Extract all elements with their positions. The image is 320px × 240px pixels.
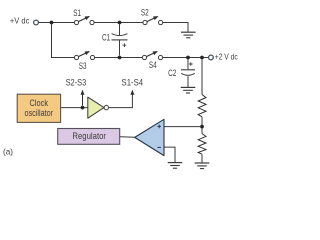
- node C1 top junction: [118, 21, 122, 25]
- node divider top junction: [200, 56, 204, 60]
- node A junction: [50, 21, 54, 25]
- node C1 bottom junction: [118, 56, 122, 60]
- wire R2 to ground: [201, 154, 203, 162]
- resistor R1: [198, 95, 206, 117]
- node C2 top junction: [186, 56, 190, 60]
- capacitor C1: [112, 24, 128, 55]
- clock oscillator box: [17, 94, 60, 122]
- wire divider top: [201, 59, 203, 94]
- wire clock oscillator to inverter: [61, 107, 88, 109]
- switch S2: [143, 17, 163, 25]
- ground below R2: [195, 163, 210, 169]
- svg-text:Clock: Clock: [30, 98, 49, 108]
- wire regulator to op-amp output: [120, 136, 135, 139]
- wire R1 to divider tap: [201, 117, 203, 127]
- ground top right: [181, 32, 196, 38]
- ground at op-amp inverting input: [168, 163, 183, 169]
- wire S1 to C1 top node: [94, 22, 143, 24]
- wire terminal to S1: [39, 22, 75, 24]
- svg-text:S4: S4: [149, 60, 157, 70]
- wire S3 to C1 bottom node: [95, 57, 143, 59]
- svg-text:+2 V dc: +2 V dc: [215, 53, 238, 62]
- op-amp U1: [135, 119, 164, 155]
- svg-text:S3: S3: [79, 61, 87, 71]
- arrow to S2-S3: [82, 91, 84, 106]
- capacitor C2: [181, 59, 195, 87]
- svg-text:oscillator: oscillator: [25, 108, 54, 118]
- resistor R2: [198, 134, 206, 155]
- node divider tap junction: [200, 125, 204, 129]
- svg-text:+V dc: +V dc: [10, 17, 30, 26]
- switch S1: [74, 17, 94, 25]
- node clock wire junction: [81, 106, 85, 110]
- wire node A down to second rail and to S3: [52, 24, 75, 57]
- svg-text:C1: C1: [102, 33, 110, 43]
- wire op-amp inverting input to ground: [164, 147, 175, 162]
- wire S4 to output terminal: [163, 57, 209, 59]
- svg-text:S1-S4: S1-S4: [122, 77, 144, 87]
- svg-text:(a): (a): [3, 146, 13, 156]
- terminal +V dc: [34, 20, 39, 25]
- switch S4: [142, 52, 162, 60]
- svg-text:C2: C2: [168, 68, 176, 78]
- ground below C2: [181, 87, 196, 93]
- wire tap to R2: [201, 129, 203, 134]
- svg-text:S2-S3: S2-S3: [66, 77, 87, 87]
- svg-text:S1: S1: [73, 8, 81, 18]
- svg-text:Regulator: Regulator: [72, 131, 106, 141]
- terminal +2 V dc: [209, 55, 214, 60]
- svg-text:S2: S2: [141, 7, 149, 17]
- wire tap to op-amp + input: [164, 126, 200, 128]
- inverter buffer: [88, 97, 109, 118]
- regulator box: [58, 129, 120, 145]
- wire S2 to ground: [163, 23, 188, 32]
- wire inverter to S1-S4 arrow: [109, 91, 133, 108]
- switch S3: [74, 52, 94, 60]
